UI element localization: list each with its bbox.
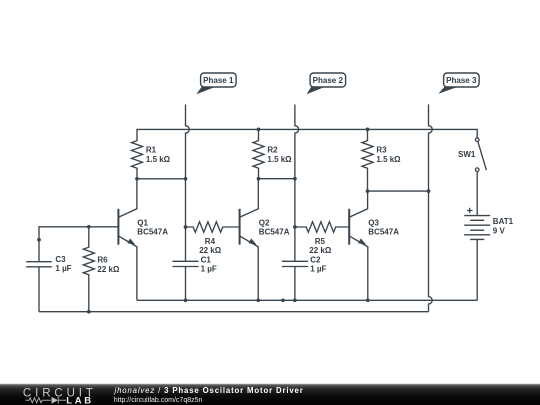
wire Q1 base to left column <box>39 227 118 262</box>
resistor R2 <box>253 129 264 178</box>
svg-text:C1: C1 <box>201 255 212 264</box>
node Q3 emitter <box>366 298 370 302</box>
node phase2/R5 <box>293 225 297 229</box>
svg-text:Q1: Q1 <box>137 219 148 228</box>
resistor R4 <box>186 222 240 232</box>
arrow Q3 <box>358 238 366 244</box>
wire R1 bottom to phase1 <box>137 178 186 180</box>
node C2 bottom <box>293 298 297 302</box>
callout Phase 2 <box>307 73 346 94</box>
wire C3 bottom <box>38 267 40 312</box>
svg-text:1.5 kΩ: 1.5 kΩ <box>376 155 401 164</box>
svg-text:Phase 1: Phase 1 <box>203 76 234 85</box>
svg-text:Phase 2: Phase 2 <box>313 76 344 85</box>
svg-text:R6: R6 <box>97 256 108 265</box>
arrow Q1 <box>127 238 135 244</box>
svg-text:R5: R5 <box>315 237 326 246</box>
svg-text:22 kΩ: 22 kΩ <box>97 265 120 274</box>
node R6 top <box>87 225 91 229</box>
transistor emitter arrows <box>127 238 366 244</box>
node R3 top <box>366 128 370 132</box>
svg-text:1 µF: 1 µF <box>201 265 217 274</box>
svg-text:BAT1: BAT1 <box>493 217 514 226</box>
node C1 bottom <box>184 298 188 302</box>
transistor Q2 collector <box>240 179 259 218</box>
transistor Q1 collector <box>118 179 136 218</box>
svg-text:R3: R3 <box>376 146 387 155</box>
svg-text:BC547A: BC547A <box>368 228 399 237</box>
transistor Q1 base bar <box>117 209 119 245</box>
node phase1/collector1 <box>184 177 188 181</box>
wire rail A (ground/emitter rail) <box>137 299 477 301</box>
svg-text:BC547A: BC547A <box>259 228 290 237</box>
wire C2 bottom <box>294 267 296 301</box>
node base1 branch <box>37 238 41 242</box>
resistor R1 <box>132 141 143 179</box>
resistor R6 <box>83 227 94 312</box>
transistor Q3 base bar <box>348 209 350 245</box>
svg-text:9 V: 9 V <box>493 226 506 235</box>
transistor Q2 base bar <box>239 209 241 245</box>
svg-text:1 µF: 1 µF <box>55 264 71 273</box>
callout Phase 1 <box>196 73 236 94</box>
transistor Q2 emitter <box>240 236 259 300</box>
wire top rail with left bend to R1 and right bend to SW1 <box>137 129 477 141</box>
footer logo doodle (resistor + diode) <box>26 397 67 404</box>
node R2 top <box>257 128 261 132</box>
transistor Q3 collector <box>349 191 367 217</box>
node R1 bottom <box>135 177 139 181</box>
resistor R5 <box>295 222 349 232</box>
node phase2/collector2 <box>293 177 297 181</box>
switch SW1 lever <box>478 141 487 170</box>
svg-text:LAB: LAB <box>66 395 94 405</box>
svg-text:C2: C2 <box>310 255 321 264</box>
svg-text:R1: R1 <box>146 146 157 155</box>
wire R3 bottom to phase3 <box>368 190 429 192</box>
node phase3 wire <box>427 189 431 193</box>
svg-text:C3: C3 <box>55 255 66 264</box>
node R3 bottom <box>366 189 370 193</box>
callout Phase 3 <box>438 73 479 94</box>
capacitor C3 <box>26 262 52 267</box>
wire phase 2 vertical with hop <box>295 105 299 262</box>
node phase1/R4 <box>184 225 188 229</box>
node R6 bottom <box>87 310 91 314</box>
svg-text:1.5 kΩ: 1.5 kΩ <box>146 155 171 164</box>
battery plus sign <box>467 208 473 214</box>
node rail A mid <box>281 298 285 302</box>
svg-text:R2: R2 <box>267 146 278 155</box>
capacitor C1 <box>172 261 198 266</box>
node Q2 emitter <box>256 298 260 302</box>
wire battery bottom to rail A <box>476 239 478 300</box>
svg-text:Q2: Q2 <box>259 219 270 228</box>
svg-text:Phase 3: Phase 3 <box>446 76 477 85</box>
arrow Q2 <box>249 238 257 244</box>
wire SW1 to battery <box>476 171 478 215</box>
node R2 bottom <box>257 177 261 181</box>
svg-text:22 kΩ: 22 kΩ <box>199 246 222 255</box>
capacitor C2 <box>282 261 308 266</box>
wire R2 bottom to phase2 <box>259 178 295 180</box>
svg-text:http://circuitlab.com/c7q8z5n: http://circuitlab.com/c7q8z5n <box>114 397 203 404</box>
svg-text:R4: R4 <box>205 237 216 246</box>
svg-text:SW1: SW1 <box>458 150 476 159</box>
svg-text:1 µF: 1 µF <box>310 265 326 274</box>
transistor Q1 emitter <box>118 236 136 300</box>
battery BAT1 plates <box>464 216 490 240</box>
wire phase 3 vertical with hops <box>429 104 433 311</box>
resistor R3 <box>362 129 373 191</box>
svg-text:jhonalvez / 3 Phase Oscilator: jhonalvez / 3 Phase Oscilator Motor Driv… <box>114 386 304 395</box>
svg-text:Q3: Q3 <box>368 219 379 228</box>
svg-text:BC547A: BC547A <box>137 228 168 237</box>
switch SW1 terminal circles <box>475 138 479 172</box>
svg-text:22 kΩ: 22 kΩ <box>309 246 332 255</box>
footer bar <box>0 384 540 405</box>
wire rail B (phase3 net bottom) <box>39 311 429 313</box>
wire phase 1 vertical with hop <box>186 105 190 262</box>
transistor Q3 emitter <box>349 236 368 300</box>
svg-text:1.5 kΩ: 1.5 kΩ <box>267 155 292 164</box>
wire C1 bottom <box>185 267 187 301</box>
